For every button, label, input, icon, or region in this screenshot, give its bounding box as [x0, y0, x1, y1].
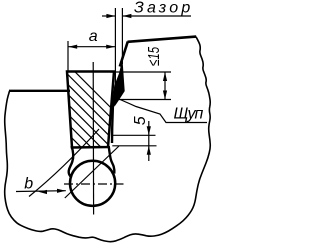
leader line to Щуп	[119, 99, 207, 123]
svg-text:Щуп: Щуп	[174, 106, 204, 123]
dimension Зазор: right arrow segment and leader under text	[122, 15, 191, 17]
dimension Зазор: extension line B	[121, 8, 123, 64]
dimension <=15: upper tick (weld top level)	[110, 71, 171, 73]
svg-text:b: b	[24, 175, 33, 192]
wire: right plate bevel lower edge below gauge	[112, 93, 117, 143]
svg-text:a: a	[89, 28, 98, 45]
dimension b: left extension diagonal	[29, 129, 99, 197]
dimension <=15: lower tick (gauge tip level)	[117, 99, 171, 101]
wire: right plate top surface	[128, 37, 197, 42]
dimension 5: vertical shaft with outside arrows	[148, 121, 150, 161]
weld bead hatching	[0, 60, 163, 160]
dimension Зазор: extension line A	[114, 8, 116, 88]
node: vertical centerline	[92, 62, 94, 215]
dimension 5: lower tick	[112, 145, 156, 147]
root bead circle	[70, 161, 115, 206]
wire: left neck curve into root bead	[69, 146, 73, 177]
dimension b: line with arrows	[16, 190, 66, 193]
dimension a: extension line left	[67, 41, 69, 71]
dimension a: line with arrows	[68, 46, 115, 48]
svg-text:≤15: ≤15	[144, 47, 162, 66]
feeler gauge blade (black wedge)	[113, 63, 124, 106]
dimension Зазор: left arrow segment	[102, 15, 115, 17]
node: horizontal dash-dot centerline	[64, 183, 124, 185]
svg-text:5: 5	[132, 116, 149, 125]
wire: right neck curve into root bead	[109, 146, 115, 174]
dimension <=15: vertical arrowed line	[164, 72, 166, 100]
wire: left plate top surface	[9, 90, 70, 92]
dimension b: right extension diagonal	[65, 146, 119, 198]
wire: right plate bevel upper edge	[120, 42, 128, 67]
weld bead trapezoid outline	[67, 72, 114, 148]
svg-text:Зазор: Зазор	[134, 0, 193, 17]
wire: freehand break border of cut-out piece	[5, 37, 211, 242]
dimension 5: upper tick	[112, 134, 155, 136]
